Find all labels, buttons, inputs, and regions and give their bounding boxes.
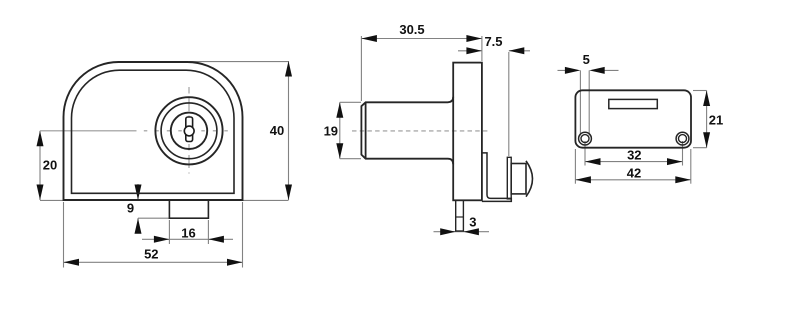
svg-text:40: 40 xyxy=(270,123,284,138)
svg-text:21: 21 xyxy=(709,113,723,128)
svg-text:19: 19 xyxy=(324,124,338,139)
svg-text:20: 20 xyxy=(43,158,57,173)
svg-text:30.5: 30.5 xyxy=(399,22,424,37)
svg-text:32: 32 xyxy=(627,148,641,163)
svg-text:5: 5 xyxy=(583,52,590,67)
svg-text:3: 3 xyxy=(469,214,476,229)
svg-text:52: 52 xyxy=(144,246,158,261)
svg-text:9: 9 xyxy=(127,201,134,216)
svg-text:42: 42 xyxy=(627,165,641,180)
svg-text:7.5: 7.5 xyxy=(484,34,502,49)
svg-text:16: 16 xyxy=(181,225,195,240)
